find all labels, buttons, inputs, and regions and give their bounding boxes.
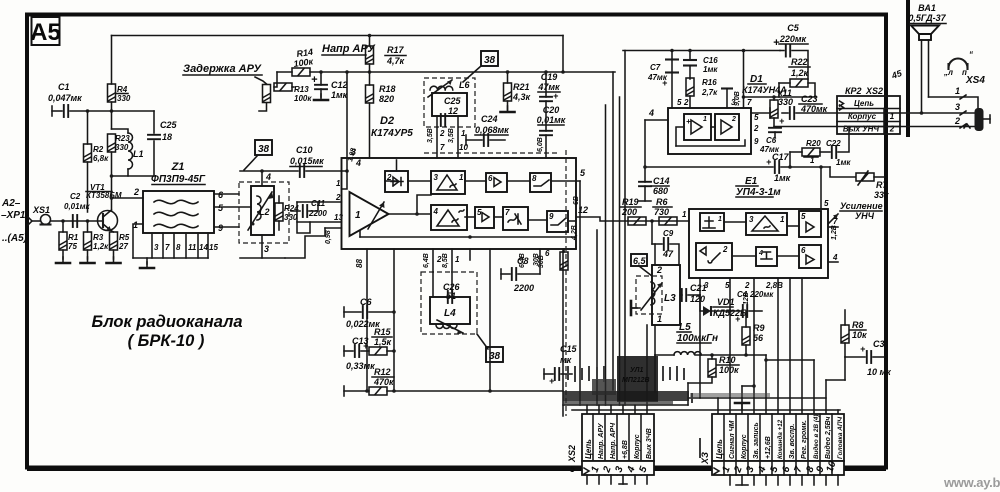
svg-text:1: 1	[703, 116, 707, 123]
block 5 amp	[475, 207, 494, 228]
svg-text:Усиление: Усиление	[840, 201, 883, 211]
svg-text:38: 38	[489, 351, 501, 362]
wire IC bottom rail	[360, 236, 576, 238]
svg-text:R3: R3	[93, 233, 104, 242]
svg-text:R21: R21	[513, 82, 530, 92]
svg-text:1: 1	[459, 173, 464, 182]
svg-text:2: 2	[954, 116, 960, 126]
svg-text:1мк: 1мк	[331, 90, 348, 100]
svg-text:3,5В: 3,5В	[448, 128, 455, 143]
resistor R4 330	[108, 84, 116, 102]
svg-text:4: 4	[758, 250, 763, 257]
svg-text:R12: R12	[374, 367, 391, 377]
wire top corner	[562, 36, 564, 73]
resistor AGC delay	[255, 77, 267, 84]
svg-text:Корпус: Корпус	[741, 434, 748, 459]
svg-text:220мк: 220мк	[749, 290, 774, 299]
wire pin3	[900, 112, 976, 114]
svg-text:9: 9	[754, 137, 759, 146]
svg-text:УЛ1: УЛ1	[630, 367, 643, 374]
resistor R5 27	[110, 232, 118, 250]
block 7 filter	[503, 207, 528, 230]
svg-text:ВА1: ВА1	[918, 3, 936, 13]
svg-text:D2: D2	[380, 115, 394, 127]
resistor R21 4,3k	[504, 83, 512, 101]
svg-text:100к: 100к	[294, 94, 312, 103]
svg-text:38: 38	[484, 55, 496, 66]
svg-text:R18: R18	[379, 84, 396, 94]
svg-text:1мк: 1мк	[703, 65, 718, 74]
svg-text:Видео 2,5Вч: Видео 2,5Вч	[824, 417, 832, 459]
svg-text:2: 2	[731, 116, 736, 123]
wire top of D1	[744, 96, 816, 98]
module E1 box	[689, 209, 828, 278]
svg-text:4: 4	[265, 172, 271, 182]
wire IC bottom pins	[366, 249, 368, 391]
stubs below	[587, 475, 647, 484]
svg-text:2: 2	[656, 265, 662, 275]
svg-text:R6: R6	[656, 197, 668, 207]
block 1	[700, 213, 724, 231]
svg-text:+: +	[686, 117, 691, 126]
ground	[140, 262, 154, 268]
svg-text:330: 330	[778, 97, 793, 107]
svg-text:100к: 100к	[719, 365, 739, 375]
stubs below	[730, 475, 838, 485]
svg-text:VD1: VD1	[717, 297, 735, 307]
svg-text:Корпус: Корпус	[634, 434, 641, 459]
svg-text:1мк: 1мк	[774, 173, 791, 183]
block 5	[799, 211, 821, 237]
svg-text:3: 3	[264, 244, 269, 254]
svg-text:ХS4: ХS4	[965, 75, 985, 86]
wire supply rail	[623, 50, 780, 52]
svg-text:+: +	[735, 314, 741, 324]
wire emitter to R5	[112, 231, 114, 232]
svg-text:С19: С19	[541, 72, 558, 82]
svg-text:R8: R8	[852, 320, 864, 330]
svg-text:1: 1	[955, 86, 960, 96]
svg-text:Зв. воспр.: Зв. воспр.	[789, 424, 796, 459]
svg-text:3: 3	[351, 147, 356, 157]
svg-text:4: 4	[832, 253, 838, 262]
svg-text:Задержка АРУ: Задержка АРУ	[183, 63, 263, 75]
svg-text:1: 1	[718, 216, 722, 223]
svg-text:..(А5): ..(А5)	[2, 233, 28, 244]
svg-text:R5: R5	[119, 233, 130, 242]
svg-text:www.ay.by: www.ay.by	[943, 475, 1000, 490]
svg-text:330: 330	[115, 143, 129, 152]
svg-text:2,8В: 2,8В	[765, 281, 783, 290]
svg-text:Напр АРУ: Напр АРУ	[322, 43, 376, 55]
op-amp U-D2 big box	[342, 158, 577, 249]
svg-text:3: 3	[154, 243, 159, 252]
svg-text:К174УР5: К174УР5	[371, 128, 413, 139]
wire top rail	[112, 35, 564, 37]
svg-text:1: 1	[455, 255, 460, 264]
svg-text:Сигнал ЧМ: Сигнал ЧМ	[729, 420, 736, 459]
svg-text:“: “	[969, 50, 973, 59]
svg-text:220мк: 220мк	[779, 34, 807, 44]
svg-text:30В: 30В	[533, 253, 540, 266]
svg-text:6,0В: 6,0В	[537, 137, 544, 152]
svg-text:R13: R13	[294, 85, 309, 94]
block 2	[696, 243, 732, 270]
svg-text:Вых 3ЧВ: Вых 3ЧВ	[646, 428, 653, 459]
svg-text:С25: С25	[160, 120, 178, 130]
svg-text:5: 5	[801, 212, 806, 221]
svg-text:10 мк: 10 мк	[867, 367, 891, 377]
coil L6 dashed screen	[424, 78, 475, 127]
svg-text:2: 2	[744, 281, 750, 290]
svg-text:L4: L4	[444, 308, 456, 319]
ground T under right table wire	[735, 403, 749, 409]
svg-text:R15: R15	[374, 327, 392, 337]
block 3 modulator	[746, 213, 787, 235]
svg-text:+: +	[773, 37, 780, 49]
svg-text:4,2В: 4,2В	[571, 225, 578, 241]
svg-text:Головка АПЧ: Головка АПЧ	[837, 417, 844, 459]
svg-text:730: 730	[654, 207, 669, 217]
svg-text:R22: R22	[791, 57, 808, 67]
svg-text:200: 200	[621, 207, 637, 217]
svg-text:680: 680	[653, 186, 668, 196]
svg-text:ФП3П9-45Г: ФП3П9-45Г	[151, 174, 206, 185]
resistor R13 100k	[274, 83, 292, 91]
wire speaker leads	[921, 40, 923, 113]
dashed screen line	[424, 152, 560, 154]
dashed screen vertical	[565, 150, 567, 416]
svg-text:R17: R17	[387, 45, 405, 55]
svg-text:27: 27	[118, 242, 128, 251]
svg-text:ХS2: ХS2	[567, 445, 577, 463]
svg-text:+: +	[860, 344, 866, 354]
resistor R23 330 and coil L1 in parallel	[111, 111, 113, 129]
svg-text:С14: С14	[653, 176, 670, 186]
svg-text:4,7к: 4,7к	[386, 56, 405, 66]
wire from AGC resistor to C10 column	[346, 72, 348, 171]
wire AGC rail	[310, 71, 615, 73]
block 6	[799, 245, 821, 268]
svg-text:8: 8	[176, 243, 181, 252]
svg-text:0,98: 0,98	[325, 230, 332, 244]
svg-text:6: 6	[488, 174, 493, 183]
svg-text:+: +	[662, 78, 668, 88]
wire L3 column	[654, 244, 656, 265]
coil L4 dashed screen	[421, 272, 477, 334]
block 8 switch	[530, 173, 551, 192]
svg-text:Напр. АРУ: Напр. АРУ	[598, 422, 605, 459]
svg-text:0,047мк: 0,047мк	[48, 93, 82, 103]
svg-text:3,5В: 3,5В	[427, 128, 434, 143]
test point 6,5 box	[631, 254, 647, 266]
svg-text:6,8к: 6,8к	[93, 154, 109, 163]
svg-text:2: 2	[753, 124, 759, 133]
svg-text:7: 7	[505, 208, 510, 217]
svg-text:R10: R10	[719, 355, 736, 365]
svg-text:7: 7	[440, 143, 445, 152]
svg-text:4: 4	[433, 207, 439, 216]
svg-text:А5: А5	[30, 19, 61, 46]
svg-text:С21: С21	[690, 283, 707, 293]
svg-text:0,015мк: 0,015мк	[290, 156, 324, 166]
svg-text:Видео в 2В (4): Видео в 2В (4)	[812, 414, 820, 459]
svg-text:2: 2	[722, 245, 728, 254]
svg-text:С4: С4	[737, 290, 748, 299]
svg-text:Напр. АРЧ: Напр. АРЧ	[610, 422, 617, 459]
svg-text:+: +	[549, 376, 555, 386]
svg-text:15: 15	[209, 243, 218, 252]
svg-text:2: 2	[439, 129, 445, 138]
svg-text:2: 2	[683, 98, 689, 107]
svg-text:1: 1	[355, 210, 361, 221]
block 6 amp	[486, 173, 507, 192]
capacitor C21 120	[682, 289, 686, 301]
svg-text:1,2к: 1,2к	[791, 68, 809, 78]
svg-text:1: 1	[780, 215, 785, 224]
svg-text:С22: С22	[826, 139, 841, 148]
resistor R3 1,2k	[84, 232, 92, 250]
svg-text:4: 4	[355, 158, 361, 168]
svg-text:УНЧ: УНЧ	[855, 211, 875, 221]
Z1 bottom pins 3 7 8 11 14 15	[133, 233, 208, 264]
svg-text:Цепь: Цепь	[584, 439, 593, 459]
svg-text:R7: R7	[876, 180, 888, 190]
ground	[81, 257, 95, 263]
svg-text:33к: 33к	[874, 190, 889, 200]
svg-text:L2: L2	[259, 207, 270, 217]
svg-text:Рег. громк.: Рег. громк.	[801, 420, 808, 459]
svg-text:+: +	[766, 157, 772, 167]
jack plug symbol	[975, 108, 984, 131]
svg-text:2200: 2200	[513, 283, 534, 293]
svg-text:С1: С1	[58, 82, 70, 92]
svg-text:( БРК-10 ): ( БРК-10 )	[128, 332, 205, 350]
node T over pin3	[721, 87, 733, 89]
svg-text:С2: С2	[70, 192, 81, 201]
svg-text:0,01мк: 0,01мк	[64, 202, 90, 211]
wire down from C6 to volume line	[789, 152, 791, 167]
svg-text:+12,6В: +12,6В	[765, 436, 772, 459]
wire: thick stub line at top right	[906, 0, 910, 137]
svg-text:С24: С24	[481, 114, 498, 124]
svg-text:7: 7	[833, 217, 838, 226]
svg-text:1мк: 1мк	[836, 158, 851, 167]
wire pin2	[900, 126, 976, 128]
svg-text:330: 330	[284, 213, 298, 222]
svg-text:С12: С12	[331, 80, 348, 90]
headphones icon	[949, 59, 968, 69]
wire collector	[112, 198, 144, 210]
resistor R18 820	[366, 85, 374, 103]
svg-text:С10: С10	[296, 145, 313, 155]
wire D1 out	[751, 112, 770, 114]
resistor R24 330	[275, 203, 283, 221]
block 4	[756, 247, 777, 266]
svg-text:10: 10	[459, 143, 468, 152]
svg-text:Зв. запись: Зв. запись	[753, 422, 760, 459]
svg-text:14: 14	[199, 243, 208, 252]
wire pin12 loop	[297, 202, 310, 233]
svg-text:470к: 470к	[373, 377, 394, 387]
svg-text:3: 3	[955, 102, 960, 112]
wire pin1	[929, 97, 979, 108]
svg-text:ХS2: ХS2	[865, 86, 883, 96]
svg-text:С9: С9	[663, 229, 674, 238]
svg-text:С5: С5	[787, 23, 799, 33]
svg-text:8,5В: 8,5В	[442, 253, 449, 268]
svg-text:7: 7	[165, 243, 170, 252]
block 2 limiter diodes	[385, 171, 408, 192]
svg-text:+6,8В: +6,8В	[622, 440, 629, 459]
wire node C1-R2-R4	[70, 110, 154, 112]
svg-text:С23: С23	[801, 94, 818, 104]
resistor below IC pin	[560, 252, 568, 270]
svg-text:С7: С7	[650, 63, 661, 72]
svg-text:1,2к: 1,2к	[93, 242, 109, 251]
test point 38 box bottom	[477, 334, 488, 349]
wire from IC pin 12	[576, 217, 689, 221]
svg-text:Цепь: Цепь	[715, 439, 724, 459]
svg-text:С25: С25	[444, 96, 462, 106]
svg-text:12: 12	[448, 106, 458, 116]
block 9 switch	[547, 211, 568, 232]
svg-text:10к: 10к	[852, 330, 867, 340]
svg-text:0,33мк: 0,33мк	[346, 361, 375, 371]
ground stub left of L3	[631, 307, 640, 309]
svg-text:2: 2	[335, 193, 341, 202]
svg-text:„л: „л	[943, 68, 953, 77]
capacitor C25 18	[153, 111, 155, 133]
svg-text:R20: R20	[806, 139, 821, 148]
svg-text:4,3к: 4,3к	[512, 92, 531, 102]
svg-text:С20: С20	[543, 105, 560, 115]
svg-text:5: 5	[754, 113, 759, 122]
svg-text:38: 38	[258, 144, 270, 155]
svg-text:R19: R19	[622, 197, 639, 207]
svg-text:L1: L1	[133, 149, 144, 159]
svg-text:330: 330	[117, 94, 131, 103]
coil L2 dashed screen	[239, 182, 289, 243]
svg-text:11: 11	[188, 243, 197, 252]
svg-text:Цепь: Цепь	[854, 99, 874, 108]
svg-text:4: 4	[648, 108, 654, 118]
svg-text:6В: 6В	[573, 196, 580, 205]
svg-text:88: 88	[355, 259, 364, 268]
svg-text:+: +	[553, 91, 559, 101]
svg-text:1: 1	[682, 210, 687, 219]
svg-text:ХЗ: ХЗ	[700, 452, 710, 465]
svg-text:R16: R16	[702, 78, 717, 87]
A5 designator box	[32, 17, 60, 45]
svg-text:8: 8	[532, 174, 537, 183]
svg-text:МП212В: МП212В	[622, 377, 650, 384]
svg-text:7: 7	[747, 98, 752, 107]
svg-text:6,5: 6,5	[633, 256, 647, 266]
wire long bottom rails	[488, 389, 492, 393]
wire volume feedback line	[645, 166, 773, 168]
test point 38 box	[255, 140, 272, 155]
resistor R1 75	[59, 232, 67, 250]
svg-text:5: 5	[824, 199, 829, 208]
svg-text:R4: R4	[117, 85, 128, 94]
svg-text:6,4В: 6,4В	[423, 253, 430, 268]
svg-text:2,7к: 2,7к	[701, 88, 718, 97]
svg-text:3: 3	[749, 215, 754, 224]
wire to C10	[240, 170, 298, 172]
svg-text:L3: L3	[664, 293, 676, 304]
svg-text:0,5ГД-37: 0,5ГД-37	[908, 13, 946, 23]
wires inside IC	[385, 160, 580, 221]
svg-text:+: +	[363, 341, 369, 351]
coil L3 contour box	[652, 265, 680, 325]
svg-text:1,5к: 1,5к	[374, 337, 392, 347]
wire pin13	[297, 221, 342, 223]
svg-text:R1: R1	[68, 233, 79, 242]
svg-text:–ХР1: –ХР1	[1, 210, 26, 221]
svg-text:9,0В: 9,0В	[734, 91, 741, 106]
IC D1 box	[668, 108, 751, 154]
wires inside E1	[724, 222, 799, 256]
svg-text:6: 6	[545, 249, 550, 258]
svg-text:ХS1: ХS1	[32, 205, 50, 215]
ground	[107, 257, 121, 263]
ground	[56, 257, 70, 263]
svg-text:С8: С8	[517, 256, 529, 266]
svg-text:18: 18	[162, 132, 172, 142]
svg-text:КР2: КР2	[845, 86, 862, 96]
block 3 detector	[431, 171, 465, 194]
svg-text:6: 6	[801, 246, 806, 255]
svg-text:0,01мк: 0,01мк	[537, 115, 566, 125]
wire into IC pin1	[345, 169, 349, 173]
amplifier triangle	[350, 192, 389, 236]
svg-text:2: 2	[133, 187, 139, 197]
svg-text:С16: С16	[703, 56, 718, 65]
svg-text:1: 1	[336, 179, 341, 188]
svg-text:1,2В: 1,2В	[831, 225, 838, 240]
svg-text:R23: R23	[115, 134, 130, 143]
wire base line	[51, 220, 104, 222]
wire input	[28, 217, 32, 225]
svg-text:С3: С3	[873, 339, 885, 349]
svg-text:Z1: Z1	[171, 161, 185, 173]
svg-text:9: 9	[549, 212, 554, 221]
svg-text:+: +	[779, 116, 785, 126]
svg-text:0,068мк: 0,068мк	[475, 125, 509, 135]
svg-text:Команда +12: Команда +12	[776, 419, 784, 459]
speaker BA1 symbol	[911, 26, 939, 35]
svg-text:3: 3	[434, 173, 439, 182]
svg-text:1: 1	[657, 314, 662, 324]
svg-text:75: 75	[68, 242, 77, 251]
svg-text:Блок радиоканала: Блок радиоканала	[91, 313, 242, 331]
resistor R17 4,7k	[366, 46, 374, 64]
svg-text:R2: R2	[93, 145, 104, 154]
svg-text:9: 9	[218, 223, 223, 233]
resistor R7 33k potentiometer	[856, 173, 874, 181]
svg-text:820: 820	[379, 94, 394, 104]
block 4 detector	[431, 205, 467, 230]
pins 2 7 1 10 under L6	[436, 116, 438, 158]
svg-text:L6: L6	[459, 80, 470, 90]
svg-text:120: 120	[690, 294, 705, 304]
svg-text:47: 47	[662, 249, 674, 259]
resistor R2 6,8k	[84, 144, 92, 162]
test point 38 box top	[481, 51, 498, 66]
svg-text:5: 5	[677, 98, 682, 107]
svg-text:А2–: А2–	[1, 198, 21, 209]
